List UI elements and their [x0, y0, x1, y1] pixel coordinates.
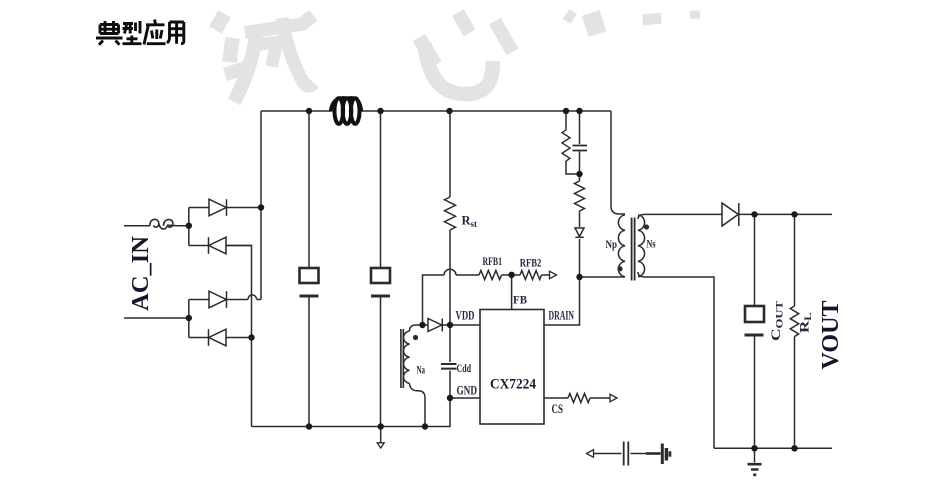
node junction AC input 1 — [186, 223, 192, 229]
diode D2 bridge points left — [189, 237, 252, 254]
svg-text:Np: Np — [606, 239, 618, 251]
capacitor Y1 safety cap — [587, 442, 629, 466]
node junction C1 top rail — [306, 108, 312, 114]
wire secondary top — [638, 214, 832, 219]
ground output earth — [748, 464, 762, 475]
diode snubber points down — [575, 228, 584, 237]
title text "typical application" (CJK drawn as strokes) — [96, 20, 184, 45]
svg-text:Ns: Ns — [647, 239, 656, 251]
wire Cout branch — [754, 214, 756, 448]
watermark character cheng — [216, 14, 315, 102]
resistor CS sense — [568, 394, 590, 403]
node junction Rst top rail — [446, 108, 452, 114]
diode D4 bridge points left — [189, 329, 252, 346]
wire AC input line 2 — [124, 317, 189, 319]
node junction snubber R top rail — [563, 108, 569, 114]
node junction C2 bottom rail — [378, 423, 384, 429]
node Ns phase dot — [644, 224, 649, 229]
svg-text:RFB1: RFB1 — [483, 254, 503, 268]
node junction VDD — [447, 322, 453, 328]
ground primary arrow — [377, 443, 384, 448]
wire Rst vertical — [449, 111, 451, 398]
svg-text:VDD: VDD — [456, 309, 475, 323]
capacitor snubber C — [573, 146, 588, 151]
node junction drain primary — [576, 274, 582, 280]
wire bridge left verticals — [188, 208, 190, 338]
resistor RFB1 — [479, 271, 502, 280]
resistor snubber R1 — [562, 130, 570, 161]
ground chassis sideways — [646, 444, 670, 465]
inductor Na auxiliary winding — [401, 329, 410, 388]
node junction Cout top — [751, 211, 757, 217]
node junction GND — [447, 395, 453, 401]
wire VDD diode to IC — [443, 324, 480, 326]
wire GND pin — [450, 397, 480, 399]
diode D1 bridge points right — [189, 199, 261, 216]
node junction RL top — [791, 211, 797, 217]
wire secondary bottom to output rail — [638, 272, 832, 448]
svg-text:CS: CS — [552, 402, 564, 416]
node junction bridge minus bus — [248, 334, 254, 340]
wire Na top to VDD diode — [410, 325, 429, 331]
resistor RFB2 — [520, 271, 541, 280]
wire bottom rail — [252, 398, 451, 427]
node junction C2 top rail — [377, 108, 383, 114]
wire RL branch — [794, 214, 796, 448]
resistor RL — [790, 306, 798, 336]
node CS terminal arrow — [610, 394, 617, 402]
capacitor C1 electrolytic — [300, 268, 319, 296]
inductor L1 EMI choke — [331, 98, 362, 124]
node junction Na bottom rail — [422, 423, 428, 429]
capacitor Cdd — [441, 364, 457, 369]
wire primary gnd arrow stem — [380, 427, 382, 444]
svg-text:GND: GND — [457, 384, 478, 398]
capacitor C2 electrolytic — [371, 268, 390, 296]
fuse F1 — [150, 219, 176, 229]
svg-text:VOUT: VOUT — [818, 301, 844, 370]
node junction snubber RC join — [576, 171, 582, 177]
diode VDD rectifier points right — [428, 319, 442, 332]
wire bulk cap 1 branch — [308, 111, 310, 427]
wire left vertical from top rail to bridge — [260, 111, 262, 300]
node junction AC input 2 — [186, 315, 192, 321]
watermark character xin — [419, 13, 513, 95]
resistor snubber R2 — [575, 181, 585, 211]
wire DRAIN to transformer — [544, 277, 580, 325]
svg-text:FB: FB — [513, 293, 527, 307]
wire primary riser from rail — [611, 111, 625, 214]
svg-text:Cdd: Cdd — [457, 363, 472, 375]
wire bulk cap 2 branch — [380, 111, 382, 427]
wire hop on bridge D3 output — [227, 295, 262, 300]
diode output rectifier points right — [722, 203, 739, 226]
diode D3 bridge points right — [189, 291, 227, 308]
transformer core — [632, 218, 635, 281]
capacitor COUT electrolytic — [745, 306, 765, 335]
wire Y-cap link — [592, 453, 646, 455]
watermark fragments — [566, 13, 700, 34]
node junction C1 bottom rail — [306, 423, 312, 429]
resistor Rst — [445, 197, 456, 230]
wire AC input line 1 — [124, 225, 189, 227]
node junction RL bottom — [791, 445, 797, 451]
node junction bridge plus bus — [258, 204, 264, 210]
wire primary bottom — [580, 276, 626, 278]
op-amp U1 CX7224 controller box — [480, 310, 544, 425]
node FB terminal arrow — [550, 271, 557, 279]
transformer primary Np winding — [618, 215, 625, 277]
wire snubber cap branch — [579, 111, 581, 277]
wire bridge minus bus — [226, 246, 252, 427]
wire CS pin — [544, 397, 610, 399]
svg-text:RFB2: RFB2 — [520, 256, 542, 270]
wire hop over Rst line — [444, 269, 456, 275]
transformer secondary Ns winding — [638, 215, 645, 277]
node junction FB divider — [508, 272, 514, 278]
svg-text:CX7224: CX7224 — [490, 377, 536, 393]
svg-text:DRAIN: DRAIN — [549, 309, 575, 323]
wire FB divider horizontal — [423, 275, 550, 325]
node junction snubber C top rail — [576, 108, 582, 114]
node junction Cout bottom — [751, 445, 757, 451]
wire FB pin vertical — [511, 275, 513, 310]
wire top rail — [261, 110, 611, 112]
wire output ground stem — [754, 448, 756, 462]
node junction FB tap — [419, 322, 425, 328]
node Na phase dot — [413, 335, 418, 340]
wire snubber resistor branch — [566, 111, 580, 174]
node Np phase dot — [617, 266, 622, 271]
svg-text:Na: Na — [417, 365, 426, 377]
wire Na bottom to rail — [410, 384, 426, 427]
svg-text:AC_IN: AC_IN — [128, 235, 154, 311]
